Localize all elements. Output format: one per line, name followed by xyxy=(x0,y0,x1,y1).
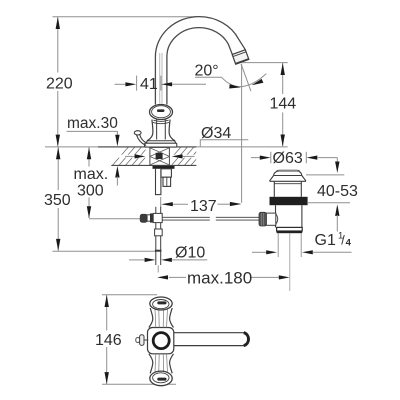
faucet base plate xyxy=(145,143,177,147)
wire countertop reference line xyxy=(45,146,288,148)
pop-up tee clamp body xyxy=(153,213,162,222)
faucet knob side view tube behind xyxy=(157,119,166,139)
spout arch inner xyxy=(167,28,232,105)
arrow G1 right xyxy=(302,250,313,254)
arrow O63 right xyxy=(307,156,318,160)
front view bottom knob slot xyxy=(157,378,166,381)
faucet skirt line xyxy=(148,140,175,142)
front view hub xyxy=(148,328,174,354)
svg-text:137: 137 xyxy=(190,198,217,215)
dimension 350 vertical line xyxy=(57,147,59,250)
pop-up tee clamp dark xyxy=(150,213,153,222)
supply tube xyxy=(155,169,161,195)
arrow O63 left xyxy=(260,156,271,160)
arrow 137 left xyxy=(161,202,173,206)
front view 146 bottom extension line xyxy=(102,383,176,385)
dimension G1 1/4 xyxy=(252,251,267,253)
angle 20 arc xyxy=(222,74,267,87)
front view top handle flutes xyxy=(155,310,167,328)
shank lower section xyxy=(161,169,171,177)
node G1 left extension xyxy=(277,233,279,257)
node O63 left tick xyxy=(270,152,272,164)
arrow 350 top xyxy=(56,147,60,159)
dimension 220 vertical line xyxy=(57,17,59,146)
dimension 144 top reference line xyxy=(242,62,288,64)
dimension max.180 right xyxy=(252,276,280,278)
countertop hatch white band at hole dimension xyxy=(108,155,197,158)
wire countertop bottom line xyxy=(111,164,196,166)
arrow O10 right xyxy=(161,258,172,262)
wire 40-53 lower stem xyxy=(336,215,338,232)
pull rod collar xyxy=(155,229,163,236)
svg-text:G1: G1 xyxy=(315,232,336,249)
wire max.300 bottom reference line xyxy=(89,218,140,220)
arrow 41 right xyxy=(161,82,172,86)
faucet knob inner ellipse xyxy=(152,106,171,118)
svg-text:146: 146 xyxy=(95,332,122,349)
node 41 right tick xyxy=(160,76,162,91)
front view bottom handle flutes xyxy=(155,354,167,372)
drain body lower xyxy=(276,205,302,227)
linkage socket xyxy=(266,213,275,225)
wire 40-53 top reference xyxy=(306,174,344,176)
dimension 146 vertical line xyxy=(106,295,108,384)
arrow 137 right xyxy=(230,202,242,206)
pull rod dark tick at 350 line xyxy=(155,250,162,252)
arrow 146 bottom xyxy=(105,372,109,384)
arrow max.30 up xyxy=(115,166,119,178)
wire 20deg underline xyxy=(195,76,222,78)
svg-text:/: / xyxy=(341,234,345,248)
arrow 220 top xyxy=(56,17,60,29)
dimension O63 xyxy=(251,157,262,159)
wire O10 underline xyxy=(172,259,208,261)
front view pop-up lever pin xyxy=(144,339,148,341)
arrow 40-53 up xyxy=(335,204,339,216)
drain flange cone xyxy=(270,176,307,182)
arrow angle left xyxy=(229,84,241,88)
dimension 137 line xyxy=(171,203,188,205)
arrow mounting hole right xyxy=(181,155,195,157)
arrow max.30 down xyxy=(115,135,119,147)
arrow 146 top xyxy=(105,295,109,307)
wire countertop top edge left xyxy=(98,146,146,148)
node 137 left extension tick xyxy=(160,197,162,208)
aerator cuff xyxy=(232,50,249,64)
arrow 144 top xyxy=(281,63,285,75)
front view top knob xyxy=(150,297,172,310)
shank inner dark core xyxy=(156,153,163,159)
svg-text:max.180: max.180 xyxy=(187,269,252,288)
svg-text:300: 300 xyxy=(77,183,104,200)
dimension max.300 vertical line xyxy=(88,147,90,218)
node O63 right tick xyxy=(305,152,307,164)
wire O34 leader xyxy=(200,140,248,147)
svg-text:144: 144 xyxy=(270,96,297,113)
arrow 350 bottom xyxy=(56,239,60,251)
arrow 144 bottom xyxy=(281,135,285,147)
wire countertop top edge right xyxy=(172,146,197,148)
locknut under countertop xyxy=(153,166,175,169)
linkage knurled cap xyxy=(259,212,266,226)
drain centerline xyxy=(289,233,291,291)
arrow O10 left xyxy=(145,258,156,262)
wire max.30 lower stem xyxy=(116,177,118,186)
arrow max.300 top xyxy=(87,147,91,159)
front view spout tube xyxy=(170,333,245,346)
front view 146 top extension line xyxy=(102,294,157,296)
front view bottom handle body xyxy=(149,354,153,374)
svg-text:350: 350 xyxy=(44,192,71,209)
dimension 144 vertical line xyxy=(282,63,284,146)
outlet fitting xyxy=(163,177,171,186)
front view spout end cap xyxy=(244,333,249,346)
svg-text:41: 41 xyxy=(140,76,158,93)
faucet threaded shank through countertop xyxy=(150,147,170,165)
countertop right slab hatching xyxy=(165,147,207,165)
faucet knob slot xyxy=(157,109,165,112)
dimension 41 xyxy=(115,83,128,85)
pop-up tee horizontal bar xyxy=(142,215,162,221)
svg-text:max.: max. xyxy=(74,166,109,183)
faucet handle body right profile xyxy=(169,120,176,144)
svg-text:Ø10: Ø10 xyxy=(175,245,205,262)
pull rod centerline stub xyxy=(157,265,159,272)
node 41 left tick xyxy=(136,76,138,91)
spout arch outer xyxy=(155,17,245,105)
arrow mounting hole left xyxy=(125,155,136,157)
pop-up tee left cap xyxy=(140,214,148,223)
spout inner tube center lines xyxy=(160,53,162,104)
arrow 41 left xyxy=(125,82,136,86)
front view hub ring xyxy=(153,333,169,349)
arrow 40-53 down xyxy=(335,162,339,174)
drain rubber seal xyxy=(270,197,308,205)
drain plug cap xyxy=(274,171,302,175)
pop-up lever nub xyxy=(134,131,141,135)
wire 40-53 bottom reference xyxy=(308,202,350,204)
horizontal linkage rod segment 1 xyxy=(162,217,210,220)
drain thread ring xyxy=(277,227,303,231)
arrow max.300 bottom xyxy=(87,206,91,218)
pop-up lever arm xyxy=(140,135,147,144)
wire top reference line (spout apex level) xyxy=(53,16,198,18)
drain body upper xyxy=(274,181,301,197)
arrow 220 bottom xyxy=(56,135,60,147)
arrow G1 left xyxy=(266,250,277,254)
wire 350 bottom reference line xyxy=(53,250,162,252)
svg-text:220: 220 xyxy=(46,76,73,93)
pull rod xyxy=(156,207,161,265)
svg-text:Ø34: Ø34 xyxy=(201,125,231,142)
front view bottom knob xyxy=(150,371,172,386)
countertop left slab hatching xyxy=(106,147,155,165)
wire max.30 leader underline xyxy=(67,131,118,136)
dimension max.180 xyxy=(169,276,186,278)
arrow max.180 right xyxy=(279,275,290,279)
dimension O10 xyxy=(129,259,145,261)
arrow max.180 left xyxy=(157,275,168,279)
horizontal linkage rod segment 2 xyxy=(216,217,260,220)
wire spout tip vertical extension line xyxy=(241,64,243,203)
dimension 40-53 upper xyxy=(336,158,338,163)
svg-text:max.30: max.30 xyxy=(67,115,118,132)
svg-text:Ø63: Ø63 xyxy=(273,150,303,167)
front view top knob slot xyxy=(157,301,166,304)
front view top handle body xyxy=(149,308,153,328)
node G1 right extension xyxy=(300,233,302,257)
arrow angle right xyxy=(252,79,264,85)
faucet handle body left profile xyxy=(146,120,153,144)
faucet knob outer ellipse xyxy=(150,105,173,120)
svg-text:4: 4 xyxy=(346,237,352,248)
wire 20 degree slanted stream line xyxy=(241,64,251,91)
svg-text:40-53: 40-53 xyxy=(317,183,358,200)
